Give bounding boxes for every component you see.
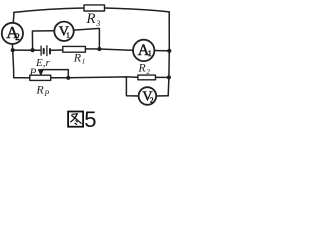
svg-text:P: P (43, 89, 49, 98)
node left rail / battery (11, 48, 15, 52)
wire R1 to A1 (85, 49, 133, 50)
wire A1 to right rail (154, 50, 169, 52)
resistor R1 (63, 46, 86, 52)
wire V2 branch right (156, 95, 168, 97)
svg-text:P: P (29, 66, 37, 78)
voltmeter V1 (54, 22, 73, 41)
svg-text:5: 5 (84, 107, 96, 130)
svg-text:1: 1 (82, 58, 86, 66)
svg-text:2: 2 (15, 32, 20, 42)
svg-text:3: 3 (95, 19, 100, 28)
svg-text:1: 1 (148, 49, 152, 58)
wire left vertical lower (12, 44, 29, 78)
wire RP to R2 (51, 76, 138, 79)
wire battery to R1 (51, 49, 63, 51)
svg-text:2: 2 (146, 68, 150, 76)
svg-text:R: R (73, 50, 82, 64)
ammeter A1 (133, 40, 154, 61)
wire top-right segment (105, 8, 170, 12)
node V1 left (30, 48, 34, 52)
ammeter A2 (2, 23, 23, 44)
wire V1 branch right (74, 28, 100, 49)
node V1 right (97, 47, 101, 51)
wire left vertical upper (12, 12, 15, 22)
svg-text:R: R (35, 83, 44, 97)
svg-text:R: R (85, 11, 95, 27)
voltmeter V2 (139, 87, 157, 105)
svg-text:R: R (137, 61, 146, 75)
wire R2 to right rail (156, 76, 169, 78)
wire V2 branch left (126, 77, 138, 96)
wire main row battery feed (13, 49, 41, 51)
wire wiper to bottom rail (41, 70, 68, 78)
battery E,r cells (41, 46, 47, 56)
resistor R3 (84, 5, 105, 11)
svg-text:2: 2 (150, 96, 154, 104)
wire V1 branch left (32, 31, 54, 50)
node R2 right rail (167, 75, 171, 79)
potentiometer RP (30, 75, 51, 80)
node wiper bottom (66, 76, 70, 80)
caption figure 5 glyph tu (68, 112, 83, 127)
resistor R2 (138, 75, 156, 80)
svg-text:1: 1 (66, 31, 70, 39)
wire top-left segment (14, 8, 84, 12)
svg-text:E,r: E,r (35, 57, 50, 69)
node A1 right rail (167, 49, 171, 53)
wiper arrow P (38, 70, 43, 75)
wire right vertical (168, 12, 169, 96)
